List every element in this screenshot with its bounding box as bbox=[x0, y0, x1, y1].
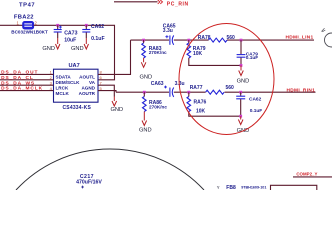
ground for RA83 bbox=[140, 62, 153, 80]
resistor RA78 560 bbox=[198, 35, 235, 42]
net HDS_DA_OUT bbox=[0, 70, 54, 76]
wire bottom audio rail bbox=[116, 91, 316, 93]
pin 5 bbox=[100, 86, 103, 91]
junction CA62 bottom bbox=[239, 115, 242, 118]
ground for CA79 bbox=[237, 65, 250, 84]
resistor RA86 270K/nc bbox=[143, 92, 168, 120]
svg-text:0.1uF: 0.1uF bbox=[246, 55, 259, 61]
svg-text:Y: Y bbox=[217, 185, 220, 190]
junction RA76 bbox=[187, 91, 190, 94]
pin 4 bbox=[50, 86, 53, 91]
wire AOUTL pin8 to top rail bbox=[98, 40, 131, 74]
svg-text:10K: 10K bbox=[193, 51, 203, 57]
wire AOUTR pin5 to bottom rail bbox=[98, 91, 116, 93]
resistor RA76 10K bbox=[187, 92, 241, 116]
svg-text:AOUTL: AOUTL bbox=[79, 75, 95, 80]
svg-text:HDS_DA_MCLK: HDS_DA_MCLK bbox=[0, 86, 43, 92]
svg-text:CA62: CA62 bbox=[91, 24, 104, 30]
svg-text:0.1uF: 0.1uF bbox=[91, 36, 105, 42]
capacitor C217 labels bbox=[76, 174, 102, 189]
wire power rail to corner, down to VA pin bbox=[34, 25, 115, 80]
junction RA79 bbox=[187, 39, 190, 42]
net HDS_DA_WS bbox=[0, 80, 54, 86]
capacitor CA63 3.3u bbox=[151, 81, 185, 97]
svg-text:560: 560 bbox=[226, 85, 235, 91]
wire top audio rail bbox=[131, 39, 315, 41]
svg-text:GND: GND bbox=[237, 78, 250, 84]
svg-text:10uF: 10uF bbox=[64, 37, 76, 43]
svg-text:GND: GND bbox=[139, 127, 152, 133]
svg-text:HDMI_RIN1: HDMI_RIN1 bbox=[287, 87, 316, 93]
capacitor CA79 0.1uF bbox=[237, 40, 259, 65]
resistor RA79 10K bbox=[187, 40, 241, 65]
svg-text:270K/nc: 270K/nc bbox=[149, 105, 167, 110]
wire AGND pin7 to ground bbox=[98, 85, 114, 101]
svg-text:GND: GND bbox=[42, 46, 55, 52]
svg-text:270K/nc: 270K/nc bbox=[149, 50, 167, 55]
net HDS_DA_MCLK bbox=[0, 86, 54, 92]
highlight ellipse bbox=[179, 24, 274, 135]
svg-text:10K: 10K bbox=[196, 109, 206, 115]
junction at CA73 tap bbox=[56, 24, 59, 27]
svg-text:DEM/SCLK: DEM/SCLK bbox=[56, 80, 81, 85]
svg-text:HDMI_LIN1: HDMI_LIN1 bbox=[286, 35, 314, 41]
pin 7 bbox=[100, 80, 103, 85]
svg-text:VA: VA bbox=[89, 80, 96, 85]
net HDMI_LIN1 bbox=[286, 35, 314, 41]
ferrite bead FBA22 bbox=[11, 15, 48, 35]
svg-text:COMP2_Y: COMP2_Y bbox=[296, 171, 317, 176]
svg-text:MCLK: MCLK bbox=[56, 91, 70, 96]
ground for CA62 top bbox=[71, 44, 89, 52]
svg-text:CA73: CA73 bbox=[64, 30, 77, 36]
svg-text:RA77: RA77 bbox=[190, 85, 203, 91]
pin 8 bbox=[100, 70, 103, 75]
capacitor CA62 0.1uF (bottom) bbox=[236, 92, 262, 116]
svg-text:CA62: CA62 bbox=[249, 97, 262, 103]
svg-text:560: 560 bbox=[227, 35, 236, 41]
svg-text:HDS_DA_WS: HDS_DA_WS bbox=[0, 80, 35, 86]
capacitor C217 arc bbox=[16, 149, 204, 190]
svg-text:HDS_DA_OUT: HDS_DA_OUT bbox=[0, 70, 38, 76]
svg-text:9TBH1609-101: 9TBH1609-101 bbox=[241, 186, 266, 190]
svg-text:AOUTR: AOUTR bbox=[79, 91, 96, 96]
junction at CA62 tap bbox=[85, 24, 88, 27]
capacitor CA73 10uF bbox=[54, 25, 78, 44]
ground for AGND bbox=[111, 101, 124, 113]
svg-text:AGND: AGND bbox=[81, 86, 95, 91]
junction CA62 bottom cap top bbox=[239, 91, 242, 94]
svg-text:PC_RIN: PC_RIN bbox=[167, 1, 189, 7]
pin 1 bbox=[50, 70, 53, 75]
IC UA7 CS4334-KS bbox=[54, 63, 99, 111]
capacitor CA65 3.3u bbox=[163, 23, 176, 45]
svg-text:0.1uF: 0.1uF bbox=[250, 108, 263, 114]
svg-text:SDATA: SDATA bbox=[56, 75, 72, 80]
svg-text:BC032WN1B0KT: BC032WN1B0KT bbox=[11, 30, 48, 35]
svg-text:GND: GND bbox=[140, 74, 153, 80]
pin 6 bbox=[100, 75, 103, 80]
svg-text:3.3u: 3.3u bbox=[163, 28, 173, 34]
net HDMI_RIN1 bbox=[287, 87, 316, 93]
junction RA86 bbox=[143, 91, 146, 94]
svg-text:TP47: TP47 bbox=[19, 3, 35, 9]
ground for CA73 bbox=[42, 44, 60, 52]
svg-text:GND: GND bbox=[111, 107, 124, 113]
wire power rail left bbox=[0, 24, 23, 26]
svg-text:UA7: UA7 bbox=[69, 63, 80, 69]
connector box bottom right bbox=[271, 185, 317, 190]
net HDS_DA_CL bbox=[0, 75, 54, 81]
testpoint TP47 bbox=[19, 3, 35, 9]
resistor RA77 560 bbox=[190, 85, 234, 94]
svg-text:470uF/16V: 470uF/16V bbox=[76, 179, 102, 185]
junction CA79 top bbox=[240, 39, 243, 42]
svg-text:CA63: CA63 bbox=[151, 81, 164, 87]
ground for CA62 bottom bbox=[237, 116, 250, 134]
ground for RA86 bbox=[139, 121, 152, 134]
svg-text:RA76: RA76 bbox=[194, 100, 207, 106]
svg-text:CS4334-KS: CS4334-KS bbox=[63, 105, 92, 111]
svg-text:LRCK: LRCK bbox=[56, 86, 69, 91]
svg-text:GND: GND bbox=[71, 46, 84, 52]
pin 3 bbox=[50, 80, 53, 85]
junction CA79 bottom bbox=[240, 64, 243, 67]
capacitor CA62 0.1uF (top) bbox=[82, 24, 104, 44]
connector circle top right bbox=[322, 28, 332, 47]
resistor RA83 270K/nc bbox=[142, 40, 167, 62]
net COMP2_Y bbox=[293, 171, 332, 177]
svg-text:FB8: FB8 bbox=[226, 185, 236, 190]
svg-text:HDS_DA_CL: HDS_DA_CL bbox=[0, 75, 34, 81]
junction RA83 bbox=[142, 39, 145, 42]
net PC_RIN bbox=[114, 0, 189, 7]
pin 2 bbox=[50, 75, 53, 80]
ferrite bead FB8 bbox=[217, 185, 267, 191]
